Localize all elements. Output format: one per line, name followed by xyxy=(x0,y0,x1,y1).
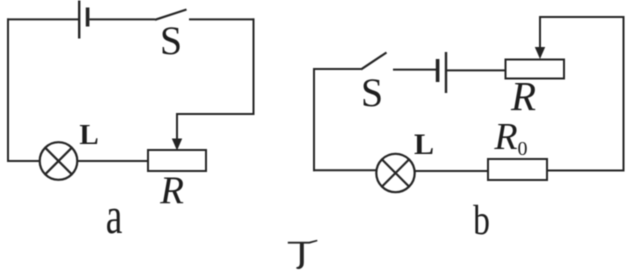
switch S (circuit b) xyxy=(361,53,387,70)
wire: lamp to R0 (circuit b) xyxy=(414,170,488,172)
glyph: cropped CJK character (ding) at bottom xyxy=(288,240,318,269)
lamp L (circuit a) xyxy=(40,142,78,180)
svg-text:S: S xyxy=(361,70,383,115)
battery B1 (circuit a) xyxy=(79,1,87,39)
svg-text:L: L xyxy=(79,119,98,151)
rheostat R box (circuit a) xyxy=(148,150,206,171)
wire: R0 to right vertical (circuit b) xyxy=(547,170,625,172)
rheostat R box (circuit b) xyxy=(506,60,565,79)
wiper arrow into R (circuit a) xyxy=(172,113,182,151)
wire: circuit a mid horizontal jog xyxy=(176,113,255,115)
resistor R0 box (circuit b) xyxy=(488,159,547,180)
label R0 (circuit b) xyxy=(493,116,527,160)
wire: circuit a top-left horizontal xyxy=(7,18,78,20)
wire: switch to top-right corner (circuit a) xyxy=(189,18,255,20)
wire: lamp to R box (circuit a) xyxy=(77,160,148,162)
svg-text:R: R xyxy=(493,116,517,158)
svg-text:R: R xyxy=(159,169,184,212)
wire: left vertical to lamp (circuit a) xyxy=(8,160,40,162)
wire: circuit b left vertical xyxy=(313,68,315,171)
svg-text:R: R xyxy=(510,73,536,119)
svg-text:a: a xyxy=(106,187,123,244)
svg-text:L: L xyxy=(414,128,434,161)
wire: switch to battery (circuit b) xyxy=(393,69,436,71)
lamp L (circuit b) xyxy=(376,154,414,192)
svg-text:S: S xyxy=(160,18,182,63)
svg-text:b: b xyxy=(473,198,490,244)
wire: circuit b top-left horizontal xyxy=(313,68,361,70)
wire: battery to rheostat R (circuit b) xyxy=(447,69,506,71)
wire: circuit a left vertical xyxy=(7,18,9,162)
wire: left vertical to lamp (circuit b) xyxy=(313,169,377,171)
wire: circuit b right vertical xyxy=(623,16,625,172)
svg-text:0: 0 xyxy=(518,138,528,160)
wire: circuit a right vertical xyxy=(253,18,255,115)
battery B2 (circuit b) xyxy=(438,52,446,93)
wiper arrow into R (circuit b) xyxy=(535,16,545,59)
wire: battery to switch (circuit a) xyxy=(89,18,155,20)
wire: circuit b top horizontal xyxy=(539,16,625,18)
switch S (circuit a) xyxy=(155,10,187,20)
